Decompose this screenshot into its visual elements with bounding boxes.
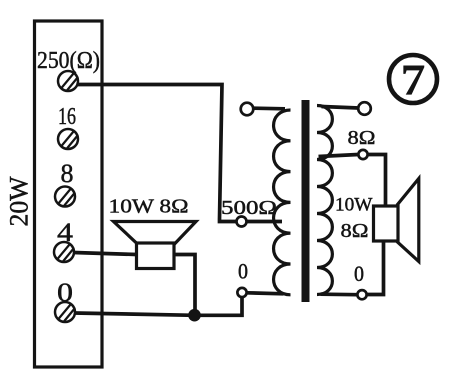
speaker SP2 driver [374,206,399,241]
secondary bottom lead [321,292,358,296]
wire 0 terminal bus to transformer 0 tap [75,298,243,316]
svg-text:7: 7 [401,56,426,105]
svg-text:8Ω: 8Ω [348,127,376,149]
svg-text:8: 8 [61,159,74,188]
svg-text:10W: 10W [335,195,373,216]
wire speaker SP2 to secondary 0 tap [367,241,384,295]
svg-text:0: 0 [238,259,248,284]
svg-text:0: 0 [354,261,364,286]
terminal screw 250Ω [58,71,78,91]
secondary 8Ω tap terminal [358,150,367,159]
primary bottom terminal [237,288,246,297]
primary 500Ω tap terminal [237,217,247,227]
terminal screw 0 [55,302,75,322]
amplifier output terminal box 20W [35,21,103,367]
svg-text:10W 8Ω: 10W 8Ω [109,196,189,218]
secondary top terminal [358,102,371,115]
speaker SP1 driver [137,243,175,269]
wire 250Ω terminal to 500Ω tap [77,85,236,222]
speaker SP2 horn [398,179,419,262]
transformer primary coil [274,110,291,295]
svg-text:500Ω: 500Ω [221,197,277,219]
svg-text:16: 16 [58,104,76,130]
wire 4 terminal to speaker SP1 [74,253,137,255]
primary bottom lead [247,293,284,294]
terminal screw 16 [58,129,78,149]
secondary bottom terminal [357,290,366,299]
primary top terminal [241,103,254,116]
secondary top lead [322,107,359,109]
terminal screw 8 [55,187,75,207]
figure number 7 circle [389,55,437,103]
svg-text:8Ω: 8Ω [341,220,369,242]
transformer core [302,100,310,302]
primary top lead [254,106,286,110]
primary 500Ω tap lead [248,220,283,224]
svg-text:20W: 20W [5,176,34,226]
secondary 8Ω tap lead [319,155,359,157]
wire speaker SP1 to 0 bus [174,255,195,315]
junction dot [188,309,201,322]
transformer secondary coil [317,106,332,295]
wire 8Ω tap to speaker SP2 [368,155,386,207]
terminal screw 4 [54,242,74,262]
speaker SP1 horn [114,222,197,245]
